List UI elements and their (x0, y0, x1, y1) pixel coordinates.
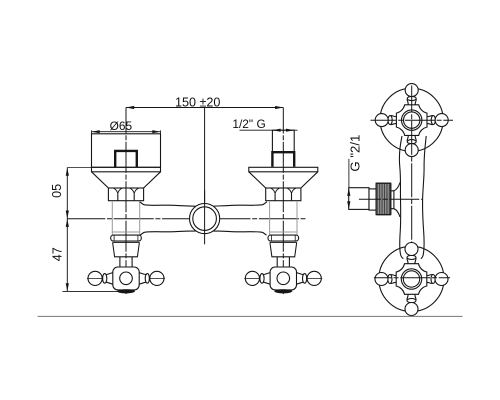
center extension line (204, 108, 206, 204)
arrow left 150 (126, 106, 134, 109)
top escutcheon circle (380, 88, 443, 151)
outlet collar (369, 189, 376, 210)
boss vertical centerline (204, 190, 206, 244)
left escutcheon box (92, 134, 161, 168)
dimension O65 (92, 131, 161, 133)
arrow right 150 (275, 106, 283, 109)
ground baseline (38, 315, 463, 317)
arrow right O65 (152, 130, 160, 133)
bottom handle horizontal centerline (374, 277, 450, 279)
arrow down at 291.4 (66, 283, 69, 291)
extension line top (67, 167, 91, 169)
right valve column (244, 167, 322, 293)
top handle horizontal centerline (371, 119, 454, 121)
right nipple (272, 130, 294, 152)
svg-text:Ø65: Ø65 (110, 119, 133, 133)
svg-text:1/2" G: 1/2" G (232, 117, 265, 131)
side bottom handle (375, 243, 448, 316)
dimension 1/2 G right nipple (240, 129, 298, 131)
outlet text extension line (348, 159, 350, 188)
left valve centerline (125, 108, 127, 295)
side vertical centerline (411, 86, 413, 317)
body bar top edge left (140, 202, 197, 206)
side top handle (375, 84, 448, 157)
arrows at 218.7 (66, 211, 69, 219)
knurled nut (376, 183, 391, 215)
side body left edge (399, 136, 403, 259)
body bar bottom edge right (213, 231, 267, 235)
svg-text:47: 47 (50, 247, 64, 261)
side body right edge (421, 136, 426, 259)
shower outlet boss inner circle (193, 207, 217, 231)
body bar bottom edge left (140, 231, 196, 235)
right square union (thick) (272, 152, 294, 167)
svg-text:G "2/1: G "2/1 (348, 135, 363, 172)
dimension 150 +-20 line (126, 107, 283, 109)
O65 extension ticks (92, 130, 161, 133)
outlet centerline (359, 198, 422, 200)
left square nipple (thick) (115, 151, 137, 167)
shower outlet boss outer circle (190, 204, 220, 234)
outlet neck (391, 191, 394, 209)
outlet thread dim arrows (347, 188, 350, 196)
horizontal centerline (67, 218, 305, 220)
arrow right 1/2G (286, 129, 294, 132)
arrow left O65 (92, 130, 100, 133)
body flare at outlet (394, 183, 400, 218)
left valve column (87, 167, 165, 293)
vertical dimension line 50/74 (66, 168, 68, 292)
arrow left 1/2G (272, 129, 280, 132)
extension line bottom (63, 290, 121, 292)
body bar top edge right (213, 202, 267, 206)
svg-text:150 ±20: 150 ±20 (175, 96, 220, 110)
right valve centerline (282, 108, 284, 295)
outlet thread rect (349, 188, 369, 210)
svg-text:05: 05 (50, 184, 64, 198)
bottom escutcheon circle (379, 246, 444, 311)
arrow up at 167.5 (66, 168, 69, 176)
